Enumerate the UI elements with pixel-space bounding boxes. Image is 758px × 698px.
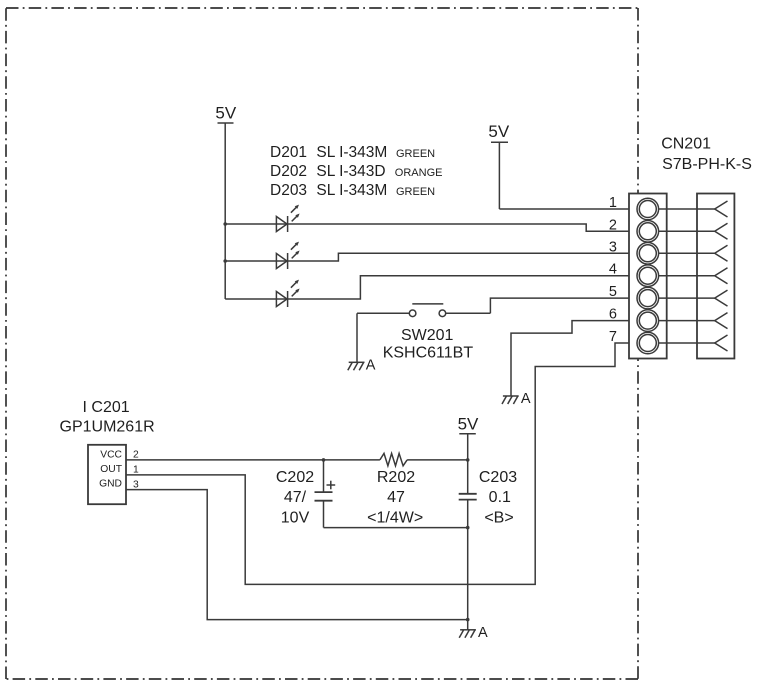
label C203 values <box>479 469 517 527</box>
ground (pin 6) <box>502 396 519 404</box>
wire connector pin 7 to IC201 OUT <box>126 343 637 584</box>
node junction dot (C203 top / 5V) <box>466 458 470 462</box>
LED D201 <box>276 205 299 232</box>
capacitor C203 <box>459 460 477 528</box>
svg-text:SW201: SW201 <box>401 327 454 344</box>
svg-text:GP1UM261R: GP1UM261R <box>60 419 155 436</box>
wire pin 5 to mating contact <box>658 297 714 299</box>
label D202 SL I-343D ORANGE <box>270 163 442 180</box>
wire connector pin 6 to ground <box>511 321 637 396</box>
svg-text:GREEN: GREEN <box>396 186 435 198</box>
svg-text:R202: R202 <box>377 469 415 486</box>
contact chevron 2 <box>715 223 728 239</box>
contact chevron 6 <box>715 313 728 329</box>
pin 1 circle <box>637 198 659 220</box>
pin 3 circle <box>637 243 659 265</box>
svg-text:C202: C202 <box>276 469 314 486</box>
svg-text:5V: 5V <box>215 103 236 122</box>
ground (bottom, node A) <box>459 630 476 638</box>
node junction dot (ground node) <box>466 618 470 622</box>
svg-text:3: 3 <box>609 239 617 255</box>
pin 5 circle <box>637 287 659 309</box>
svg-text:ORANGE: ORANGE <box>395 167 443 179</box>
wire 5V to connector pin 1 <box>499 208 637 210</box>
contact chevron 5 <box>715 290 728 306</box>
wire pin 6 to mating contact <box>658 320 714 322</box>
contact chevron 7 <box>715 335 728 351</box>
svg-text:A: A <box>521 391 531 407</box>
wire from 5V to D201 and connector pin 2 <box>225 224 637 231</box>
wire switch to ground <box>356 313 358 362</box>
wire pin 2 to mating contact <box>658 230 714 232</box>
wire from 5V to D202 and connector pin 3 <box>225 253 637 261</box>
svg-text:I C201: I C201 <box>83 399 130 416</box>
connector CN201 box <box>629 194 667 359</box>
svg-text:VCC: VCC <box>100 449 122 460</box>
label R202 values <box>367 469 423 527</box>
wire R202 to 5V/C203 node <box>407 459 468 461</box>
label D203 SL I-343M GREEN <box>270 182 435 199</box>
svg-text:GND: GND <box>99 478 122 489</box>
svg-text:5: 5 <box>609 284 617 300</box>
pin 7 circle <box>637 332 659 354</box>
svg-text:S7B-PH-K-S: S7B-PH-K-S <box>662 156 752 173</box>
wire pin 1 to mating contact <box>658 208 714 210</box>
svg-text:OUT: OUT <box>100 464 122 475</box>
wire from 5V to D203 and connector pin 4 <box>225 276 637 299</box>
wire IC VCC to R202/C202 node <box>126 459 380 461</box>
label D201 SL I-343M GREEN <box>270 144 435 161</box>
wire C202 bottom to C203 bottom <box>324 527 468 529</box>
ground (switch) <box>348 362 365 370</box>
power 5V symbol (above connector pin 1) <box>491 142 508 209</box>
svg-text:1: 1 <box>133 465 139 476</box>
svg-text:A: A <box>478 625 488 641</box>
capacitor C202 (polarized) <box>315 460 336 528</box>
node junction dot (C202 top) <box>322 458 326 462</box>
resistor R202 <box>380 453 407 465</box>
wire pin 3 to mating contact <box>658 252 714 254</box>
svg-text:GREEN: GREEN <box>396 148 435 160</box>
svg-text:2: 2 <box>609 217 617 233</box>
IC U201 box <box>88 445 126 504</box>
svg-text:D201: D201 <box>270 144 307 161</box>
svg-text:0.1: 0.1 <box>489 489 511 506</box>
svg-text:2: 2 <box>133 450 139 461</box>
wire pin 4 to mating contact <box>658 275 714 277</box>
switch SW201 <box>357 304 490 317</box>
node junction dot (C203 bottom) <box>466 526 470 530</box>
svg-text:A: A <box>366 358 376 374</box>
wire C203 bottom to ground <box>467 528 469 620</box>
svg-text:1: 1 <box>609 195 617 211</box>
svg-text:KSHC611BT: KSHC611BT <box>383 345 474 362</box>
svg-text:D203: D203 <box>270 182 307 199</box>
contact chevron 4 <box>715 268 728 284</box>
svg-text:<B>: <B> <box>484 510 513 527</box>
LED D202 <box>276 242 299 269</box>
svg-text:SL I-343M: SL I-343M <box>316 144 387 161</box>
svg-text:6: 6 <box>609 307 617 323</box>
svg-text:5V: 5V <box>488 122 509 141</box>
node junction dot on wire 1 <box>223 222 227 226</box>
connector mating-side box <box>697 194 734 359</box>
svg-text:4: 4 <box>609 262 617 278</box>
wire switch to connector pin 5 <box>490 298 637 313</box>
pin 6 circle <box>637 310 659 332</box>
svg-text:3: 3 <box>133 479 139 490</box>
contact chevron 1 <box>715 201 728 217</box>
LED D203 <box>276 280 299 307</box>
svg-text:47: 47 <box>387 489 405 506</box>
svg-text:7: 7 <box>609 329 617 345</box>
power 5V symbol (above C203) <box>459 434 476 460</box>
svg-text:10V: 10V <box>281 510 310 527</box>
contact chevron 3 <box>715 245 728 261</box>
label C202 values <box>276 469 314 527</box>
wire ground stub <box>467 620 469 630</box>
svg-text:47/: 47/ <box>284 489 307 506</box>
node junction dot on wire 2 <box>223 259 227 263</box>
svg-text:CN201: CN201 <box>661 136 711 153</box>
svg-text:SL I-343D: SL I-343D <box>316 163 385 180</box>
pin 4 circle <box>637 265 659 287</box>
svg-text:<1/4W>: <1/4W> <box>367 510 423 527</box>
power 5V symbol (top left) <box>218 123 234 299</box>
wire IC GND to ground <box>126 490 468 620</box>
svg-text:D202: D202 <box>270 163 307 180</box>
svg-text:5V: 5V <box>458 414 479 433</box>
wire pin 7 to mating contact <box>658 342 714 344</box>
svg-text:SL I-343M: SL I-343M <box>316 182 387 199</box>
pin 2 circle <box>637 221 659 243</box>
svg-text:C203: C203 <box>479 469 517 486</box>
